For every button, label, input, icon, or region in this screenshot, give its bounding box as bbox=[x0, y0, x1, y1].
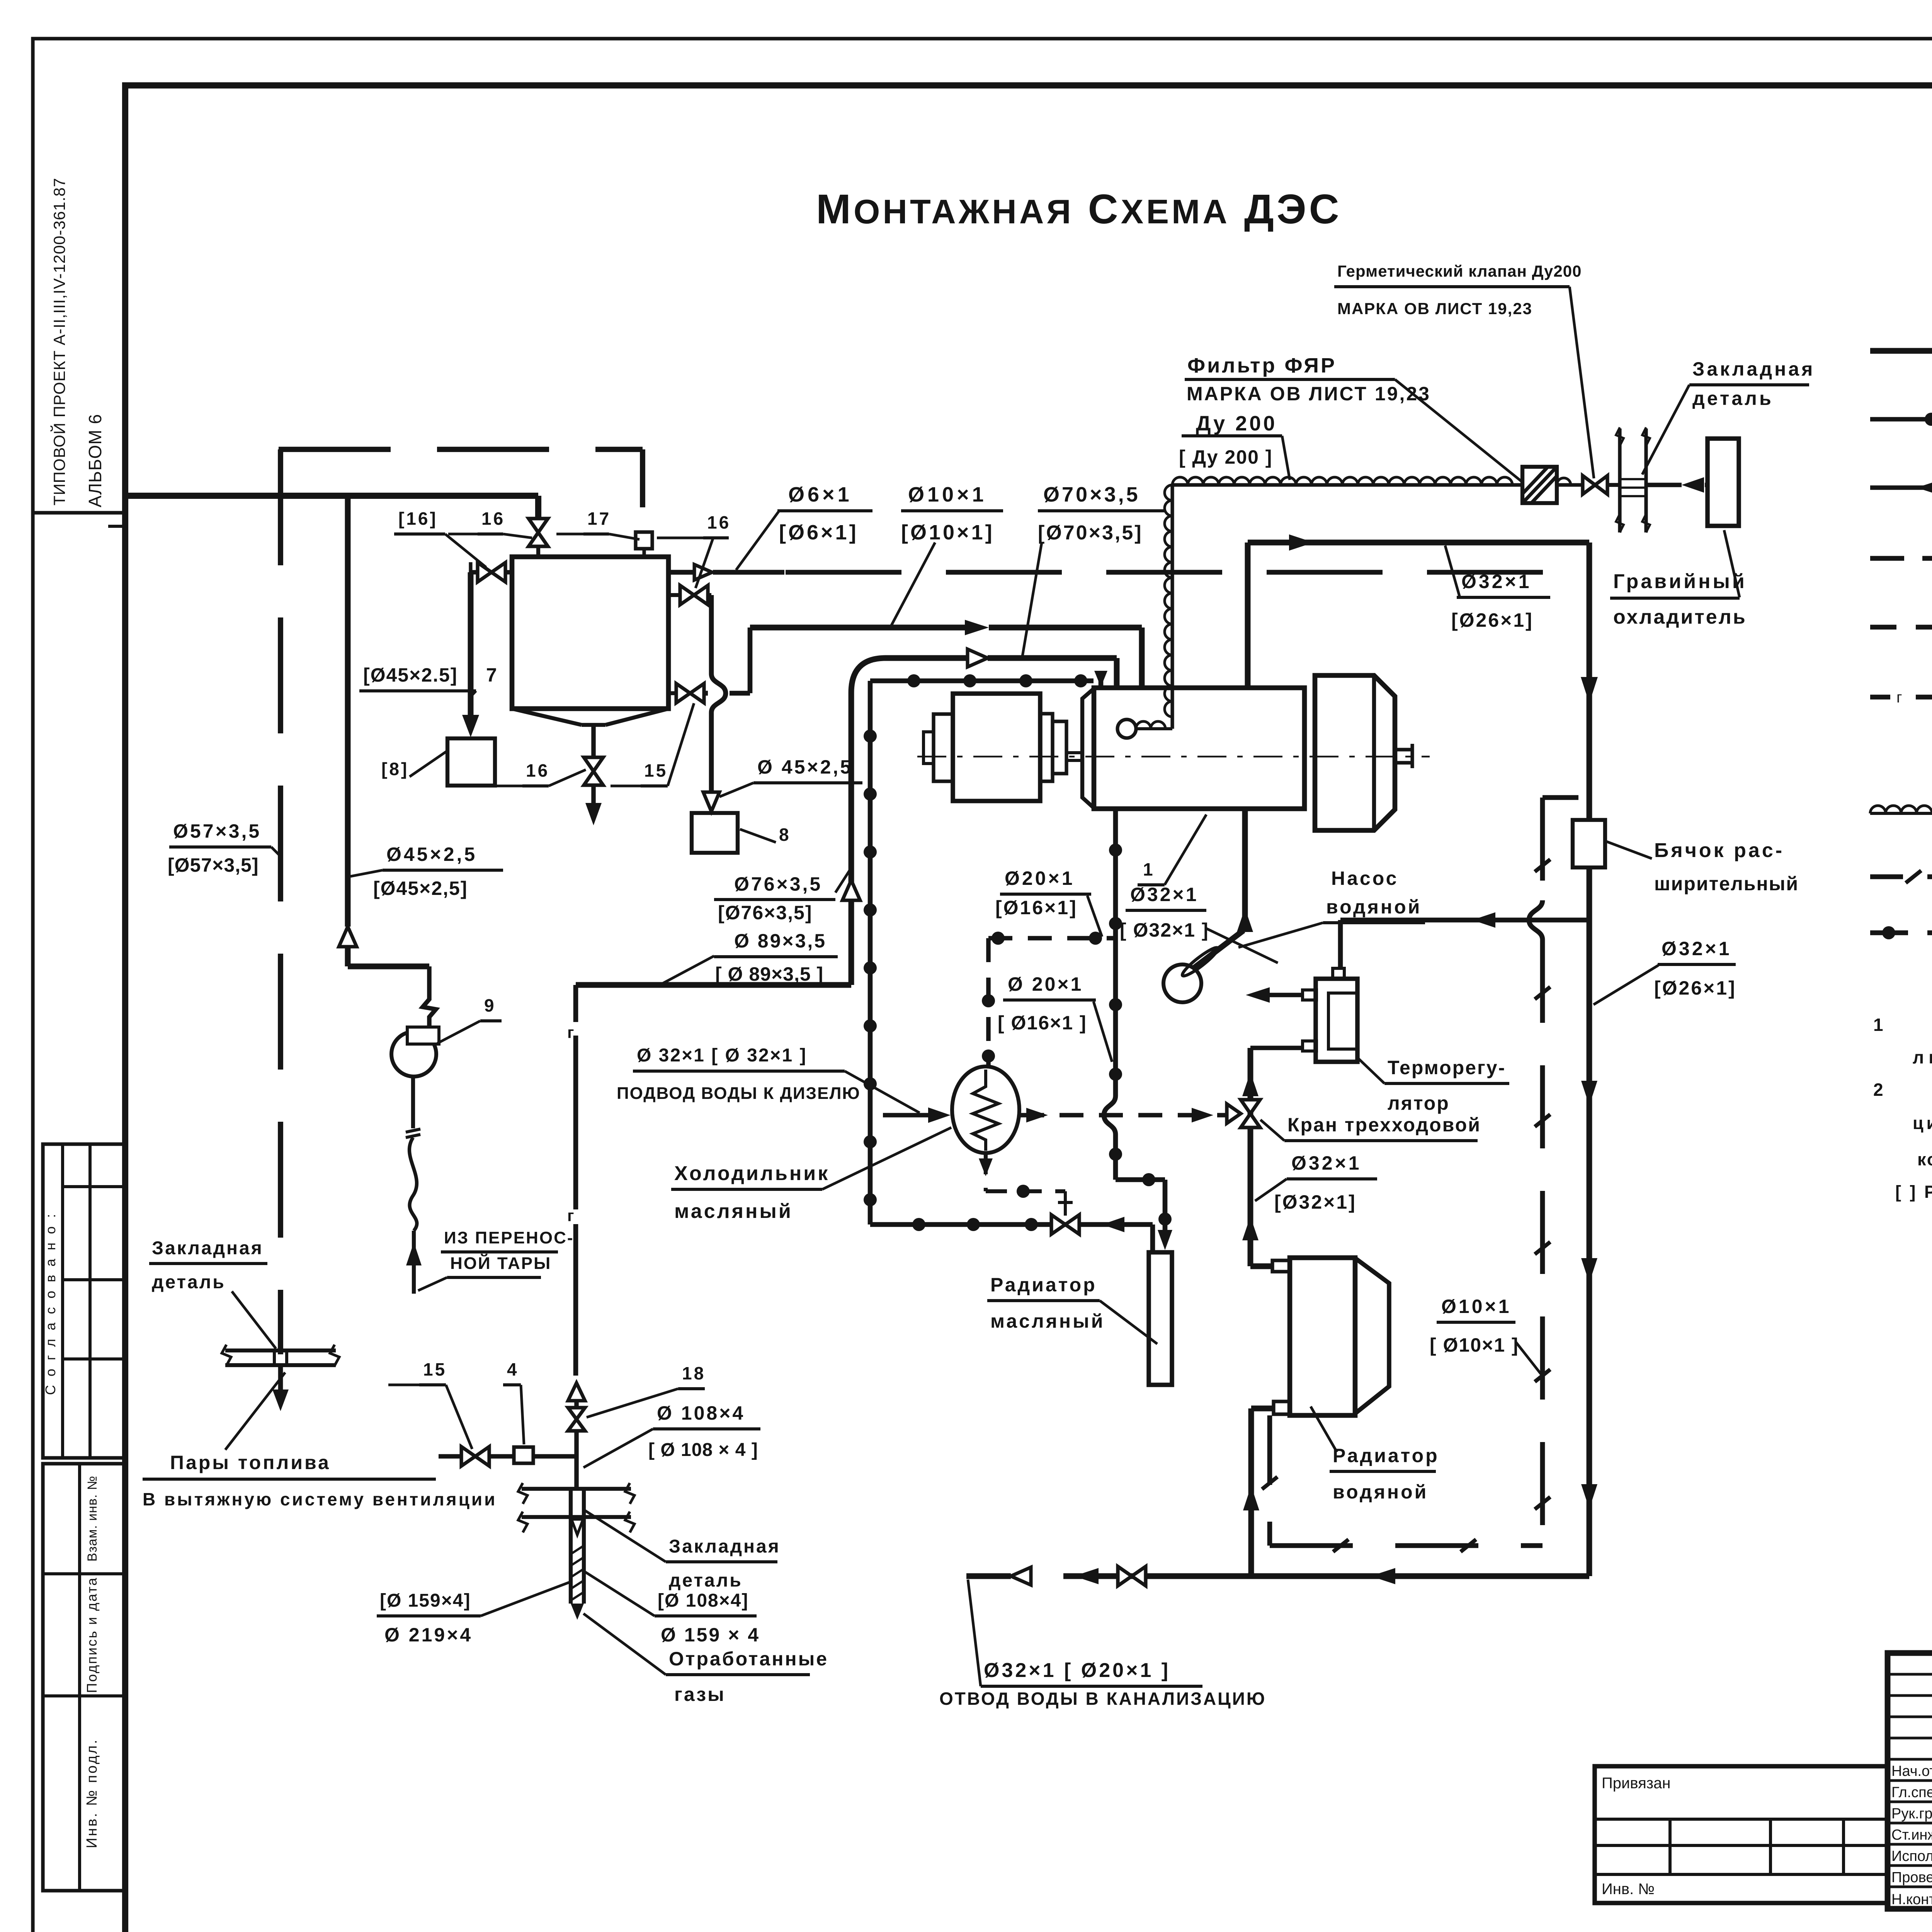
svg-text:2: 2 bbox=[1873, 1080, 1883, 1100]
svg-text:[8]: [8] bbox=[381, 759, 409, 779]
svg-text:Ду 200: Ду 200 bbox=[1196, 412, 1277, 435]
svg-text:Ø 45×2,5: Ø 45×2,5 bbox=[757, 756, 853, 778]
svg-text:Ø20×1: Ø20×1 bbox=[1005, 867, 1075, 889]
svg-text:[Ø6×1]: [Ø6×1] bbox=[779, 521, 859, 544]
svg-text:деталь: деталь bbox=[1692, 388, 1774, 409]
svg-text:ТИПОВОЙ ПРОЕКТ А-II,III,IV-120: ТИПОВОЙ ПРОЕКТ А-II,III,IV-1200-361.87 bbox=[50, 178, 68, 506]
svg-text:масляный: масляный bbox=[990, 1310, 1105, 1332]
svg-text:Ø76×3,5: Ø76×3,5 bbox=[734, 873, 822, 895]
svg-text:Закладная: Закладная bbox=[1692, 358, 1815, 380]
svg-text:17: 17 bbox=[587, 509, 611, 529]
svg-text:[Ø32×1]: [Ø32×1] bbox=[1274, 1191, 1357, 1213]
svg-text:Ø 219×4: Ø 219×4 bbox=[384, 1624, 473, 1646]
svg-text:15: 15 bbox=[423, 1359, 447, 1379]
svg-text:9: 9 bbox=[484, 995, 496, 1015]
svg-text:[ Ø 108 × 4 ]: [ Ø 108 × 4 ] bbox=[648, 1440, 758, 1460]
svg-text:Инв. № подл.: Инв. № подл. bbox=[84, 1738, 100, 1849]
svg-text:[Ø 159×4]: [Ø 159×4] bbox=[380, 1590, 471, 1611]
svg-text:Инв. №: Инв. № bbox=[1602, 1881, 1655, 1898]
svg-text:Бячок рас-: Бячок рас- bbox=[1654, 839, 1784, 862]
svg-text:[ Ø32×1 ]: [ Ø32×1 ] bbox=[1120, 919, 1209, 941]
svg-text:Провер.: Провер. bbox=[1891, 1869, 1932, 1886]
svg-text:[Ø 108×4]: [Ø 108×4] bbox=[658, 1590, 748, 1611]
svg-text:Холодильник: Холодильник bbox=[674, 1162, 830, 1185]
svg-text:[Ø45×2.5]: [Ø45×2.5] bbox=[363, 664, 458, 686]
svg-text:г: г bbox=[567, 1206, 574, 1225]
svg-text:Подпись и дата: Подпись и дата bbox=[84, 1577, 100, 1693]
svg-text:ИЗ ПЕРЕНОС-: ИЗ ПЕРЕНОС- bbox=[444, 1228, 574, 1247]
svg-text:Гравийный: Гравийный bbox=[1613, 570, 1747, 593]
svg-text:Закладная: Закладная bbox=[152, 1238, 264, 1259]
svg-text:Герметический клапан Ду200: Герметический клапан Ду200 bbox=[1337, 262, 1582, 280]
svg-text:1: 1 bbox=[1873, 1015, 1883, 1035]
svg-text:[ Ø16×1 ]: [ Ø16×1 ] bbox=[998, 1012, 1087, 1034]
svg-text:Ø 108×4: Ø 108×4 bbox=[657, 1402, 745, 1424]
svg-text:Ø10×1: Ø10×1 bbox=[908, 483, 987, 506]
svg-text:Ø57×3,5: Ø57×3,5 bbox=[173, 820, 261, 842]
svg-text:Н.контр.: Н.контр. bbox=[1891, 1891, 1932, 1908]
svg-text:15: 15 bbox=[644, 760, 668, 781]
svg-text:4: 4 bbox=[507, 1359, 519, 1379]
svg-text:Согласовано:: Согласовано: bbox=[43, 1206, 58, 1395]
svg-text:водяной: водяной bbox=[1333, 1481, 1428, 1503]
svg-text:МАРКА ОВ ЛИСТ 19,23: МАРКА ОВ ЛИСТ 19,23 bbox=[1337, 299, 1532, 318]
svg-text:ширительный: ширительный bbox=[1654, 873, 1799, 895]
svg-text:[Ø10×1]: [Ø10×1] bbox=[901, 521, 995, 544]
svg-text:Исполн.: Исполн. bbox=[1891, 1848, 1932, 1864]
svg-text:Ø10×1: Ø10×1 bbox=[1441, 1296, 1512, 1317]
svg-text:лятор: лятор bbox=[1388, 1092, 1450, 1114]
svg-text:охладитель: охладитель bbox=[1613, 606, 1747, 628]
svg-text:Радиатор: Радиатор bbox=[1333, 1445, 1439, 1466]
svg-text:Пары топлива: Пары топлива bbox=[170, 1452, 331, 1473]
svg-text:Фильтр ФЯР: Фильтр ФЯР bbox=[1187, 354, 1337, 377]
svg-text:Нач.отд.: Нач.отд. bbox=[1891, 1763, 1932, 1779]
svg-text:[ Ø 89×3,5 ]: [ Ø 89×3,5 ] bbox=[715, 963, 823, 985]
svg-text:Терморегу-: Терморегу- bbox=[1388, 1057, 1506, 1078]
svg-text:[Ø76×3,5]: [Ø76×3,5] bbox=[718, 902, 813, 923]
svg-text:Ст.инж.: Ст.инж. bbox=[1891, 1827, 1932, 1843]
svg-text:Ø70×3,5: Ø70×3,5 bbox=[1043, 483, 1140, 506]
svg-text:ПОДВОД ВОДЫ К ДИЗЕЛЮ: ПОДВОД ВОДЫ К ДИЗЕЛЮ bbox=[617, 1084, 861, 1103]
svg-text:[Ø70×3,5]: [Ø70×3,5] bbox=[1038, 522, 1143, 544]
svg-text:[Ø26×1]: [Ø26×1] bbox=[1654, 977, 1736, 999]
svg-text:[Ø16×1]: [Ø16×1] bbox=[995, 897, 1078, 918]
svg-text:Ø32×1 [ Ø20×1 ]: Ø32×1 [ Ø20×1 ] bbox=[984, 1659, 1170, 1682]
svg-text:[ Ø10×1 ]: [ Ø10×1 ] bbox=[1430, 1334, 1519, 1356]
svg-text:Рук.гр: Рук.гр bbox=[1891, 1806, 1932, 1822]
svg-text:Ø 159 × 4: Ø 159 × 4 bbox=[661, 1624, 760, 1646]
svg-text:комплектно поставляются с: комплектно поставляются с дизель-генерат… bbox=[1917, 1150, 1932, 1169]
svg-text:МАРКА ОВ ЛИСТ 19,23: МАРКА ОВ ЛИСТ 19,23 bbox=[1187, 383, 1431, 405]
svg-text:16: 16 bbox=[526, 760, 549, 781]
svg-text:[ Ду 200 ]: [ Ду 200 ] bbox=[1179, 446, 1272, 468]
svg-text:Насос: Насос bbox=[1331, 867, 1398, 889]
svg-text:деталь: деталь bbox=[669, 1570, 743, 1591]
svg-text:Ø32×1: Ø32×1 bbox=[1662, 938, 1732, 959]
svg-text:16: 16 bbox=[707, 512, 731, 532]
svg-text:[Ø57×3,5]: [Ø57×3,5] bbox=[168, 854, 259, 876]
svg-text:[ ] Размеры указаны для: [ ] Размеры указаны для климатической зо… bbox=[1895, 1182, 1932, 1202]
svg-text:18: 18 bbox=[682, 1363, 706, 1383]
svg-text:деталь: деталь bbox=[152, 1272, 226, 1293]
svg-text:16: 16 bbox=[481, 509, 505, 529]
svg-text:Ø32×1: Ø32×1 bbox=[1291, 1152, 1362, 1174]
svg-text:Ø32×1: Ø32×1 bbox=[1461, 571, 1532, 592]
svg-text:г: г bbox=[1896, 689, 1902, 706]
svg-text:НОЙ ТАРЫ: НОЙ ТАРЫ bbox=[450, 1253, 551, 1273]
svg-text:Отработанные: Отработанные bbox=[669, 1648, 828, 1670]
svg-text:Кран трехходовой: Кран трехходовой bbox=[1287, 1114, 1481, 1136]
svg-text:[Ø26×1]: [Ø26×1] bbox=[1451, 609, 1534, 631]
svg-text:циями относятся к узлу: циями относятся к узлу охлаждения дизеля… bbox=[1913, 1113, 1932, 1133]
svg-text:АЛЬБОМ 6: АЛЬБОМ 6 bbox=[85, 414, 105, 507]
svg-text:газы: газы bbox=[674, 1684, 726, 1705]
svg-text:7: 7 bbox=[486, 664, 499, 686]
svg-text:В вытяжную систему вентиляции: В вытяжную систему вентиляции bbox=[143, 1489, 497, 1509]
svg-text:Ø 89×3,5: Ø 89×3,5 bbox=[734, 930, 827, 952]
svg-text:Ø 32×1 [ Ø 32×1 ]: Ø 32×1 [ Ø 32×1 ] bbox=[637, 1045, 807, 1066]
svg-text:Ø32×1: Ø32×1 bbox=[1130, 884, 1199, 905]
svg-text:Ø45×2,5: Ø45×2,5 bbox=[386, 844, 477, 865]
svg-text:ОТВОД ВОДЫ В КАНАЛИЗАЦИЮ: ОТВОД ВОДЫ В КАНАЛИЗАЦИЮ bbox=[939, 1689, 1266, 1709]
svg-text:масляный: масляный bbox=[674, 1200, 793, 1223]
svg-text:[Ø45×2,5]: [Ø45×2,5] bbox=[373, 878, 468, 899]
svg-text:1: 1 bbox=[1143, 859, 1155, 879]
svg-text:Гл.спец.: Гл.спец. bbox=[1891, 1784, 1932, 1801]
svg-text:Закладная: Закладная bbox=[669, 1536, 781, 1557]
svg-text:листе ЭД - 2,3: листе ЭД - 2,3 bbox=[1913, 1047, 1932, 1067]
svg-text:МОНТАЖНАЯ СХЕМА ДЭС: МОНТАЖНАЯ СХЕМА ДЭС bbox=[816, 185, 1342, 232]
svg-text:водяной: водяной bbox=[1326, 896, 1422, 918]
svg-text:Ø6×1: Ø6×1 bbox=[788, 483, 852, 506]
svg-text:8: 8 bbox=[779, 825, 791, 845]
svg-text:Взам. инв. №: Взам. инв. № bbox=[85, 1476, 100, 1562]
svg-text:[16]: [16] bbox=[398, 509, 438, 529]
svg-text:Ø 20×1: Ø 20×1 bbox=[1008, 973, 1083, 995]
svg-text:Привязан: Привязан bbox=[1602, 1775, 1670, 1792]
svg-text:г: г bbox=[567, 1023, 574, 1041]
svg-text:Радиатор: Радиатор bbox=[990, 1274, 1097, 1296]
